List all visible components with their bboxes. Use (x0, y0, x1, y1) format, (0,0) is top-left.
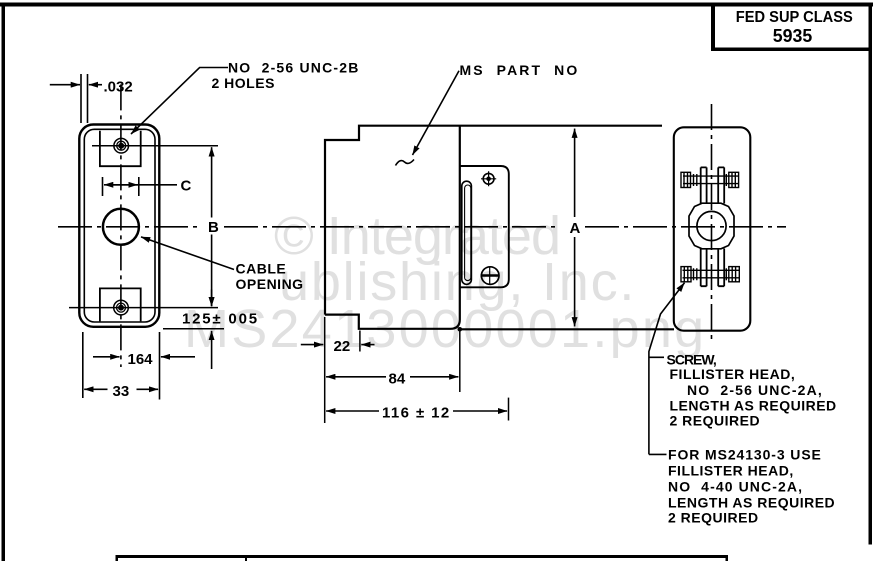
bottom hole centerline extension (69, 307, 218, 309)
flange bottom screw (481, 267, 500, 285)
left view inner outline (84, 129, 155, 322)
svg-text:A: A (570, 220, 581, 237)
body outline lower with step and fillet (325, 126, 460, 329)
dimension .032 (50, 74, 102, 123)
body outline upper (325, 126, 662, 315)
svg-text:84: 84 (389, 371, 406, 388)
dimension 125 +/- 005 (211, 290, 213, 370)
clamp straps lower (701, 249, 725, 287)
bottom hole recess rectangle (100, 288, 141, 321)
cable opening leader (141, 237, 234, 270)
clamp collar octagon (689, 203, 734, 249)
svg-text:FOR MS24130-3 USE: FOR MS24130-3 USE (668, 447, 822, 463)
note SCREW leader (649, 357, 667, 454)
bottom clamp screw (681, 267, 739, 282)
svg-text:NO 2-56 UNC-2A,: NO 2-56 UNC-2A, (687, 382, 823, 398)
connector shell capsule inner (465, 185, 471, 281)
page border top (0, 3, 873, 7)
svg-text:CABLE: CABLE (236, 261, 287, 277)
dimension A (574, 129, 576, 327)
svg-text:MS PART NO: MS PART NO (460, 62, 580, 78)
main horizontal centerline (58, 226, 786, 228)
svg-text:FILLISTER HEAD,: FILLISTER HEAD, (670, 366, 796, 382)
right view vertical centerline (711, 104, 713, 341)
junction node (458, 327, 463, 332)
svg-text:LENGTH AS REQUIRED: LENGTH AS REQUIRED (670, 398, 837, 414)
dimension 33 (83, 332, 158, 398)
dimension C (103, 177, 178, 196)
dimension 22 (301, 344, 375, 346)
clamp straps upper (701, 167, 725, 203)
left view vertical centerline (120, 84, 122, 367)
svg-text:C: C (181, 178, 192, 195)
dimension 116 +/- 12 (326, 410, 507, 412)
connector shell capsule outer (462, 181, 472, 284)
title block top edge (bottom of sheet) (116, 555, 729, 561)
rear plate outline (674, 127, 751, 330)
left view outer outline (79, 125, 159, 327)
svg-text:B: B (208, 219, 219, 236)
bottom screw hole (114, 300, 129, 315)
note MS PART NO leader (413, 71, 460, 155)
mounting flange (460, 166, 509, 287)
svg-text:164: 164 (128, 351, 154, 368)
dimension 164 (93, 332, 195, 400)
extension lines for bottom dimensions (325, 317, 509, 423)
break squiggle at leader tip (396, 160, 415, 166)
page border left (2, 3, 6, 561)
svg-text:22: 22 (334, 338, 351, 355)
rear body bottom edge (460, 328, 674, 330)
svg-text:FED SUP CLASS: FED SUP CLASS (736, 9, 853, 26)
top screw hole (114, 138, 129, 153)
dimension B (211, 147, 213, 306)
svg-text:116 ± 12: 116 ± 12 (382, 405, 451, 422)
dimension 84 (326, 376, 458, 378)
top clamp screw (681, 172, 739, 187)
FED SUP CLASS box (711, 4, 871, 51)
svg-text:2 REQUIRED: 2 REQUIRED (668, 510, 759, 526)
svg-text:LENGTH AS REQUIRED: LENGTH AS REQUIRED (668, 495, 835, 511)
top hole recess rectangle (100, 131, 141, 166)
top hole centerline extension (92, 145, 218, 147)
svg-text:NO 4-40 UNC-2A,: NO 4-40 UNC-2A, (668, 479, 803, 495)
cable opening circle (103, 209, 139, 245)
svg-text:2 HOLES: 2 HOLES (212, 75, 275, 91)
svg-text:33: 33 (113, 383, 130, 400)
svg-text:FILLISTER HEAD,: FILLISTER HEAD, (668, 463, 794, 479)
svg-text:NO 2-56 UNC-2B: NO 2-56 UNC-2B (228, 60, 360, 76)
plate bottom edge extension (163, 328, 224, 330)
flange top screw (481, 171, 496, 186)
svg-text:OPENING: OPENING (236, 276, 304, 292)
svg-text:.032: .032 (104, 79, 133, 96)
svg-text:2 REQUIRED: 2 REQUIRED (670, 413, 761, 429)
note NO 2-56 UNC-2B leader (131, 68, 228, 135)
clamp bore circle (697, 211, 726, 240)
svg-text:5935: 5935 (773, 26, 813, 46)
page border right (869, 3, 873, 545)
svg-text:125± 005: 125± 005 (182, 311, 259, 328)
